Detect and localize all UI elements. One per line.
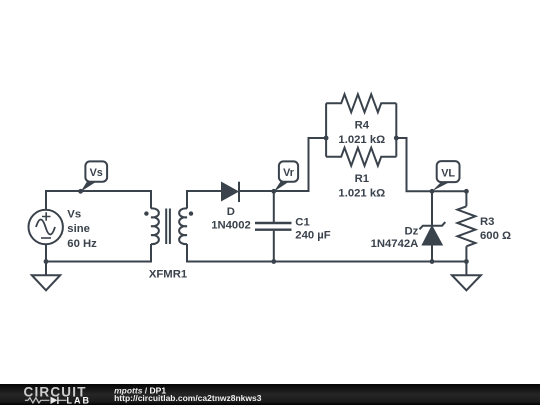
wire zener bottom lead bbox=[431, 245, 433, 262]
svg-text:Vs: Vs bbox=[67, 209, 81, 221]
wire top-left loop bbox=[46, 191, 151, 210]
junction node Vr bbox=[271, 189, 276, 194]
junction node R3 bottom bbox=[464, 259, 469, 264]
svg-text:R4: R4 bbox=[355, 120, 370, 132]
svg-text:1N4002: 1N4002 bbox=[211, 219, 251, 231]
wire secondary top bbox=[187, 191, 222, 209]
wire capacitor top lead bbox=[273, 191, 275, 222]
svg-text:D: D bbox=[227, 206, 235, 218]
ground left bbox=[32, 262, 60, 291]
wire capacitor bottom lead bbox=[273, 231, 275, 262]
junction node resistor bank left bbox=[324, 136, 329, 141]
svg-text:Vs: Vs bbox=[90, 167, 103, 179]
svg-text:R1: R1 bbox=[355, 173, 369, 185]
voltage source Vs bbox=[29, 210, 63, 244]
svg-text:600 Ω: 600 Ω bbox=[480, 230, 511, 242]
resistor R4 bbox=[326, 94, 396, 112]
svg-text:VL: VL bbox=[441, 168, 455, 180]
svg-text:1.021 kΩ: 1.021 kΩ bbox=[338, 188, 385, 200]
wire secondary bottom rail bbox=[187, 244, 466, 262]
transformer XFMR1 bbox=[144, 208, 193, 244]
svg-text:XFMR1: XFMR1 bbox=[149, 269, 187, 281]
resistor R3 bbox=[457, 206, 475, 246]
wire R3 bottom lead bbox=[465, 246, 467, 261]
wire bottom-left loop bbox=[46, 244, 151, 262]
svg-text:1N4742A: 1N4742A bbox=[371, 238, 419, 250]
zener diode Dz bbox=[420, 222, 446, 244]
diode D bbox=[222, 182, 239, 202]
resistor R1 bbox=[326, 148, 396, 166]
junction node VL bbox=[430, 189, 435, 194]
wire diode to Vr node and up to resistor bank bbox=[239, 138, 326, 191]
junction node capacitor bottom bbox=[271, 259, 276, 264]
wire resistor bank right bus bbox=[395, 103, 397, 156]
junction node zener bottom bbox=[430, 259, 435, 264]
svg-text:Dz: Dz bbox=[404, 225, 418, 237]
svg-text:60 Hz: 60 Hz bbox=[67, 238, 97, 250]
junction node Vs flag bbox=[78, 189, 83, 194]
svg-text:C1: C1 bbox=[295, 217, 309, 229]
ground right bbox=[452, 262, 481, 291]
junction node R3 top bbox=[464, 189, 469, 194]
wire zener top lead bbox=[431, 191, 433, 225]
wire resistor bank right to VL rail bbox=[396, 138, 466, 191]
flag VL bbox=[432, 161, 460, 191]
flag Vr bbox=[274, 161, 298, 191]
svg-text:1.021 kΩ: 1.021 kΩ bbox=[338, 134, 385, 146]
capacitor C1 bbox=[255, 223, 292, 230]
svg-text:R3: R3 bbox=[480, 216, 494, 228]
svg-text:Vr: Vr bbox=[283, 167, 295, 179]
flag Vs bbox=[81, 161, 108, 191]
svg-text:http://circuitlab.com/ca2tnwz8: http://circuitlab.com/ca2tnwz8nkws3 bbox=[114, 393, 262, 403]
svg-text:240 µF: 240 µF bbox=[295, 230, 330, 242]
logo diode glyph bbox=[51, 397, 59, 404]
junction node ground left bbox=[44, 259, 49, 264]
logo resistor zigzag bbox=[25, 398, 67, 403]
wire R3 top lead bbox=[465, 191, 467, 206]
svg-text:LAB: LAB bbox=[67, 395, 92, 405]
junction node resistor bank right bbox=[394, 136, 399, 141]
svg-text:sine: sine bbox=[67, 223, 90, 235]
wire resistor bank left bus bbox=[325, 103, 327, 156]
